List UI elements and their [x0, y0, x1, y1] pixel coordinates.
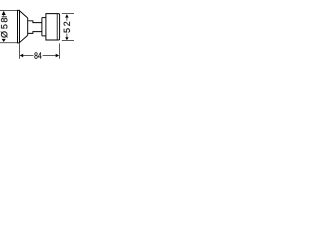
flange back face [41, 18, 43, 36]
flange top ledge [42, 17, 46, 19]
dimension line right stub [66, 34, 68, 38]
neck top edge [28, 21, 42, 23]
dimension line left upper stub [3, 15, 5, 16]
dimension line bottom right segment [43, 55, 57, 57]
cone lower edge [20, 35, 28, 42]
neck bottom edge [28, 32, 42, 34]
dimension arrow down-right [65, 37, 68, 40]
cone upper edge [20, 11, 28, 18]
extension line bottom-left [0, 42, 17, 44]
body seam line [56, 14, 58, 40]
dimension text bottom "84" [34, 52, 41, 58]
dimension line right upper stub [66, 18, 68, 21]
extension line top-right [62, 12, 74, 14]
dimension arrow left [20, 54, 24, 57]
cone front face [27, 18, 29, 36]
dimension arrow up-left [2, 11, 6, 15]
extension line bottom-dim right [59, 43, 61, 58]
extension line top-left [0, 9, 17, 11]
flange bottom ledge [42, 35, 46, 37]
dimension arrow right [56, 54, 60, 57]
dimension arrow down-left [2, 39, 6, 42]
wall plate [18, 10, 20, 43]
extension line bottom-right [62, 40, 74, 42]
body outline [46, 14, 60, 40]
dimension arrow up-right [65, 14, 68, 18]
dimension text right "52" (rotated) [64, 22, 70, 33]
dimension line bottom left segment [23, 55, 34, 57]
extension line bottom-dim left [18, 44, 20, 59]
dimension text left "Ø 58" (rotated) [1, 16, 8, 37]
